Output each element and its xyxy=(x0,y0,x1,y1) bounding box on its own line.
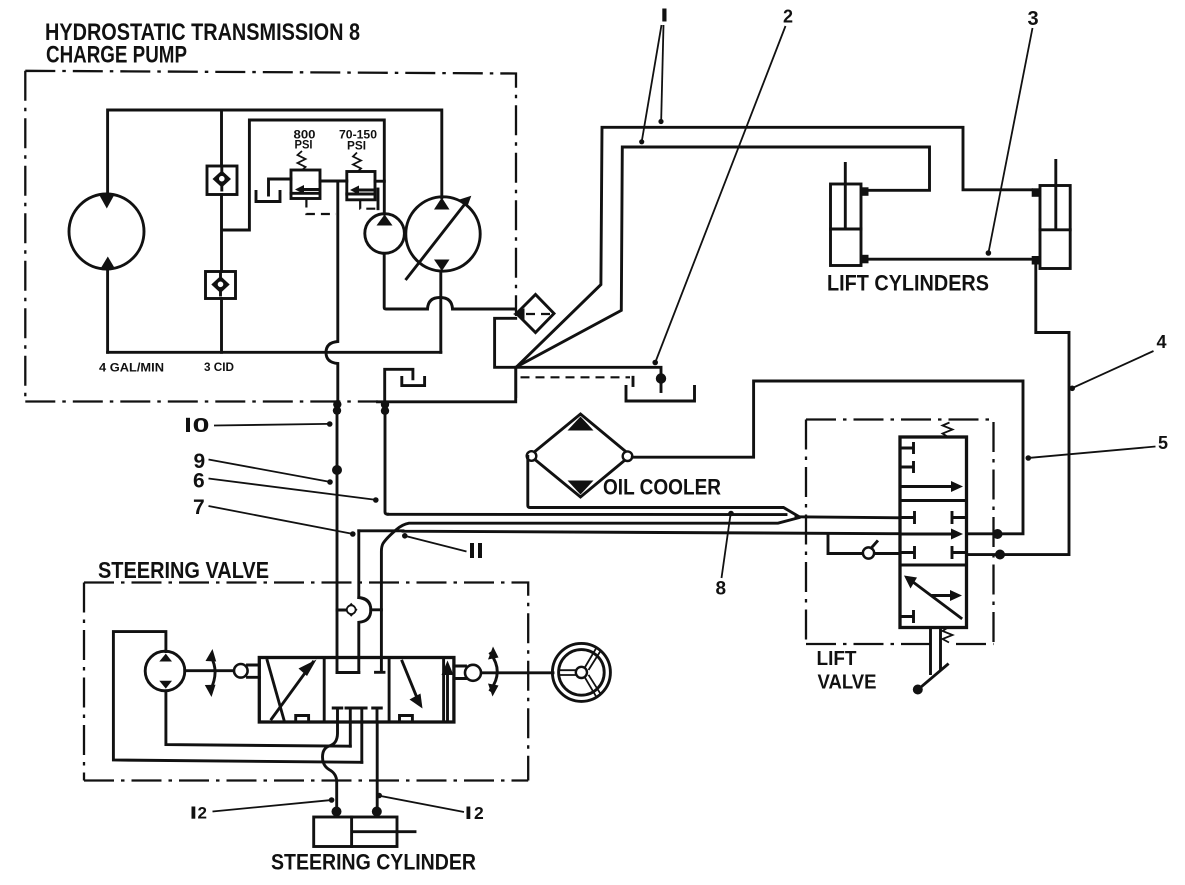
motor M (left circle) xyxy=(69,194,144,269)
lift valve internal check xyxy=(828,534,900,554)
svg-text:2: 2 xyxy=(783,6,793,26)
junction dot at tank T3 xyxy=(656,373,666,383)
junction dot line A mid xyxy=(332,465,342,475)
spool end-cap arrow xyxy=(446,668,449,720)
lift valve bottom spring xyxy=(943,628,953,643)
wire: top manifold xyxy=(108,110,442,198)
lift valve top section ports xyxy=(900,444,914,472)
leader 10 xyxy=(214,424,328,426)
RV1 drain (dashed) xyxy=(306,199,336,215)
rotation arc left xyxy=(211,657,216,691)
spool left section arrows xyxy=(267,660,284,720)
steering wheel shaft xyxy=(482,671,554,674)
exit port block xyxy=(495,318,516,367)
steering valve enclosure (dash-dot) xyxy=(84,583,528,781)
label 1 xyxy=(662,9,666,22)
tank T3 xyxy=(626,387,695,402)
relief valve RV1 xyxy=(291,170,320,199)
leader 3 xyxy=(989,28,1033,251)
wire D: steering tap to lift valve xyxy=(359,531,900,534)
svg-text:3 CID: 3 CID xyxy=(204,362,234,374)
charge pump (small circle) xyxy=(365,214,405,254)
cylinder port dots xyxy=(332,807,342,817)
leader 12 left xyxy=(213,800,330,811)
filter diamond at box exit xyxy=(517,295,555,333)
label 12 left xyxy=(192,807,196,819)
line A continue down to steering valve xyxy=(336,412,339,673)
RV2 drain (dashed) xyxy=(360,200,378,209)
label 10 xyxy=(186,418,190,432)
notch bottom in spool xyxy=(337,671,359,674)
leader 4 xyxy=(1074,351,1154,388)
steering pump xyxy=(145,651,185,691)
main pump (variable, large circle) xyxy=(406,197,480,271)
wire: exit to oil-cooler tank junction xyxy=(517,367,661,372)
line A: main feed down (with detour arc over bottom rail) xyxy=(326,181,338,402)
relief valve RV1 spring xyxy=(298,151,306,170)
svg-text:2: 2 xyxy=(198,804,207,823)
motor bottom arrow xyxy=(100,257,116,270)
svg-text:6: 6 xyxy=(193,470,205,493)
leader 1b xyxy=(642,25,662,140)
tube sheath bottom line xyxy=(381,518,799,672)
leader 5 xyxy=(1030,447,1156,458)
relief valve RV2 spring xyxy=(353,153,361,172)
svg-text:4 GAL/MIN: 4 GAL/MIN xyxy=(99,363,164,375)
svg-text:VALVE: VALVE xyxy=(818,671,877,694)
svg-text:LIFT: LIFT xyxy=(817,647,857,670)
wire: corner down to steering check xyxy=(357,531,360,598)
lift valve enclosure (dash-dot) xyxy=(806,420,994,645)
tank T1 xyxy=(256,191,280,201)
svg-text:3: 3 xyxy=(1028,8,1039,30)
leader 2 xyxy=(656,26,786,361)
wire: return from exit down and left (tank line) xyxy=(378,367,516,402)
spool body xyxy=(259,658,454,723)
wire: bottom rail xyxy=(108,351,441,354)
lift valve lever xyxy=(921,665,948,688)
lift valve body xyxy=(900,437,967,628)
wire: main pump down through hop to bottom rail xyxy=(439,271,442,352)
charge pump enclosure (dash-dot box) xyxy=(25,71,516,402)
leader 6 xyxy=(209,479,375,500)
check valve CV1 xyxy=(207,166,237,195)
svg-text:8: 8 xyxy=(716,579,727,600)
lift valve top spring xyxy=(943,423,953,438)
svg-text:4: 4 xyxy=(1157,332,1167,352)
port dot wire4 xyxy=(995,550,1005,560)
svg-text:STEERING CYLINDER: STEERING CYLINDER xyxy=(271,849,476,874)
svg-text:0: 0 xyxy=(193,415,210,437)
lift valve stem xyxy=(931,628,941,674)
lift cylinder LC2 (right) xyxy=(1040,186,1070,269)
leader 12 right xyxy=(381,796,464,812)
T-port from tube bottom line xyxy=(376,671,385,674)
svg-text:5: 5 xyxy=(1158,433,1168,453)
tube inner wire (pipe 8) xyxy=(388,514,900,518)
svg-text:STEERING VALVE: STEERING VALVE xyxy=(98,557,269,583)
wire: fan line to top outer run xyxy=(517,127,1031,366)
junction dots line A at border xyxy=(333,400,341,408)
wire: RV1 to RV2 xyxy=(320,180,347,183)
label 12 right xyxy=(467,807,471,820)
lift valve bottom section xyxy=(909,579,961,618)
steering valve bottom port curve to cylinder xyxy=(323,722,338,809)
steering cylinder xyxy=(314,817,397,847)
leader 8 xyxy=(722,515,731,579)
svg-text:7: 7 xyxy=(193,496,205,519)
steering wheel xyxy=(552,643,610,701)
main pump variable arrow xyxy=(406,203,466,279)
ball joint left xyxy=(248,665,260,677)
svg-text:2: 2 xyxy=(474,803,484,823)
rotation arc right xyxy=(491,654,498,691)
leader 9 xyxy=(209,460,329,482)
wire: charge pump outlet with crossover hop xyxy=(384,253,514,309)
wire 4: right cylinder to lift valve xyxy=(967,265,1070,555)
steering pump bottom line xyxy=(166,691,350,746)
motor top arrow xyxy=(99,195,115,209)
label 11 xyxy=(470,543,474,558)
steering check valve (ball in seat) xyxy=(359,598,371,673)
lift valve mid section ports xyxy=(900,513,967,523)
drain riser to tank T2 xyxy=(385,369,413,402)
check valve CV2 xyxy=(206,272,236,299)
wire: fan line to top inner run xyxy=(517,147,929,366)
RV1 pilot line to tank xyxy=(269,179,292,195)
spool mid ports (T bars) xyxy=(333,708,381,762)
svg-text:CHARGE PUMP: CHARGE PUMP xyxy=(46,42,187,69)
dashed drain to tank T3 xyxy=(521,376,631,378)
wire: check valve branch vertical xyxy=(220,110,223,352)
lift cylinder LC1 (left) xyxy=(831,184,862,266)
wire: motor bottom to bottom rail xyxy=(106,269,109,352)
leader 7 xyxy=(209,506,352,534)
wire: cylinder rod-end link xyxy=(869,258,1032,261)
leader 11 xyxy=(407,536,467,551)
junction dots line B at border xyxy=(381,400,389,408)
oil cooler diamond xyxy=(530,414,631,497)
ball joint right xyxy=(454,666,466,679)
wire 5: oil cooler to lift valve xyxy=(632,381,1023,534)
svg-text:PSI: PSI xyxy=(295,140,313,152)
tube sheath top line xyxy=(528,457,799,517)
svg-text:OIL COOLER: OIL COOLER xyxy=(603,475,721,500)
wire: RV2 outlet xyxy=(375,180,384,183)
port lines to steering cylinder xyxy=(376,722,379,810)
line B down to tube xyxy=(385,412,388,514)
spool right section arrows xyxy=(402,661,417,699)
port dot wire5 xyxy=(993,529,1003,539)
wire: inner loop (check line to charge pump) xyxy=(222,120,384,230)
relief valve RV2 xyxy=(347,172,375,200)
leader 1a xyxy=(661,25,663,120)
svg-text:LIFT CYLINDERS: LIFT CYLINDERS xyxy=(827,271,989,296)
steering pump loop left xyxy=(113,632,361,763)
svg-text:PSI: PSI xyxy=(347,141,366,153)
tank T2 xyxy=(402,377,425,385)
shaft pump to ball xyxy=(185,669,235,672)
